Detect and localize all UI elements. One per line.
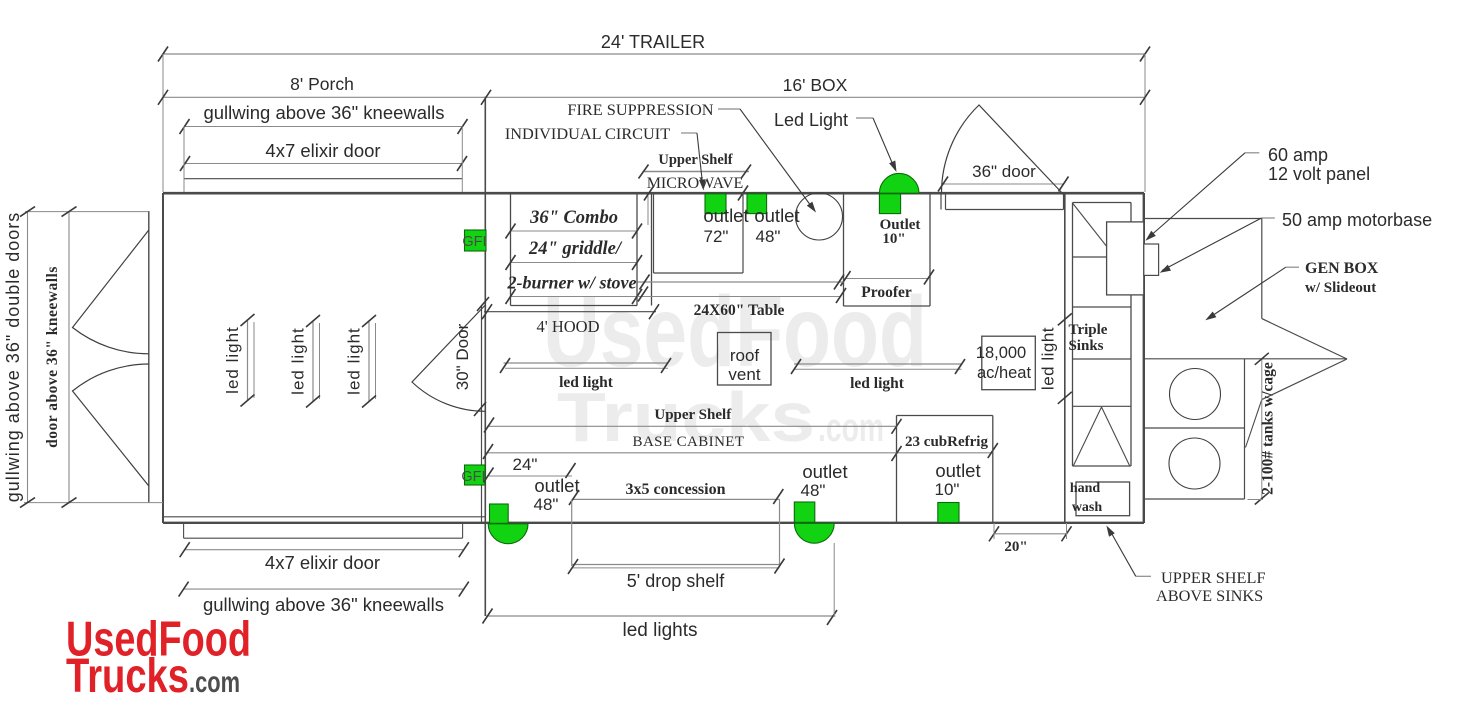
svg-text:8' Porch: 8' Porch <box>290 74 354 94</box>
svg-text:led lights: led lights <box>623 620 698 641</box>
trailer right wall <box>1143 193 1145 523</box>
outlet 72 square <box>705 194 726 214</box>
top cell diagonal <box>1073 203 1116 257</box>
svg-text:60 amp: 60 amp <box>1268 145 1328 165</box>
elixir door top rect <box>184 178 462 180</box>
svg-text:5' drop shelf: 5' drop shelf <box>627 571 725 591</box>
proofer box <box>843 193 845 306</box>
svg-text:INDIVIDUAL CIRCUIT: INDIVIDUAL CIRCUIT <box>505 124 670 143</box>
svg-text:.com: .com <box>818 406 884 450</box>
svg-text:MICROWAVE: MICROWAVE <box>647 175 744 192</box>
svg-text:24' TRAILER: 24' TRAILER <box>601 32 705 52</box>
svg-text:12 volt panel: 12 volt panel <box>1268 164 1370 184</box>
dim gullwing double doors vertical <box>27 212 29 503</box>
dim 24ft trailer <box>163 53 1145 55</box>
30in door leaf and arc <box>412 305 485 411</box>
svg-text:led light: led light <box>345 327 364 395</box>
outlet mid square+dome <box>794 502 815 522</box>
svg-text:Upper Shelf: Upper Shelf <box>658 152 732 168</box>
left ext lines <box>25 211 149 213</box>
porch inner bottom line <box>163 516 485 518</box>
svg-text:36" Combo: 36" Combo <box>529 208 618 228</box>
svg-text:wash: wash <box>1072 500 1103 515</box>
svg-text:outlet: outlet <box>534 475 579 496</box>
porch inner left wall <box>148 211 150 503</box>
23 cub refrig box <box>897 415 993 417</box>
svg-text:UPPER SHELF: UPPER SHELF <box>1161 568 1266 587</box>
svg-text:10": 10" <box>882 231 905 247</box>
36in door dim <box>943 183 1064 185</box>
svg-text:18,000: 18,000 <box>976 344 1026 362</box>
4ft hood line <box>484 311 656 313</box>
interior wall right section <box>1064 193 1066 523</box>
porch led light 3 <box>368 321 370 402</box>
svg-text:Triple: Triple <box>1069 322 1108 338</box>
svg-text:30" Door: 30" Door <box>453 323 472 390</box>
svg-text:BASE CABINET: BASE CABINET <box>633 434 745 450</box>
dim 8ft porch / 16ft box <box>163 96 1145 98</box>
porch/box divider wall <box>484 97 486 617</box>
svg-text:FIRE SUPPRESSION: FIRE SUPPRESSION <box>567 100 713 119</box>
tank circles <box>1170 369 1221 420</box>
svg-text:outlet: outlet <box>802 461 847 482</box>
svg-text:10": 10" <box>935 480 960 499</box>
motorbase nub <box>1144 244 1159 275</box>
svg-text:outlet: outlet <box>703 205 748 226</box>
drop shelf box <box>571 499 573 566</box>
upper shelf above sinks <box>1136 575 1151 577</box>
leader 60 amp <box>1245 152 1259 154</box>
svg-text:50 amp motorbase: 50 amp motorbase <box>1282 210 1432 230</box>
dim door above kneewalls vertical <box>68 212 70 503</box>
svg-text:GEN BOX: GEN BOX <box>1305 260 1379 277</box>
svg-text:outlet: outlet <box>754 205 799 226</box>
svg-text:2-burner w/ stove: 2-burner w/ stove <box>506 273 636 293</box>
svg-text:door above 36" kneewalls: door above 36" kneewalls <box>44 266 61 448</box>
microwave shelf line <box>643 171 750 173</box>
24x60 table lines <box>638 281 844 283</box>
fire suppression circle <box>796 193 843 240</box>
svg-text:Trucks: Trucks <box>66 650 189 703</box>
dim 4x7 elixir bottom <box>185 549 464 551</box>
svg-text:24" griddle/: 24" griddle/ <box>528 239 623 259</box>
dim 24in <box>487 475 572 477</box>
12 volt panel box <box>1107 222 1144 295</box>
svg-text:24": 24" <box>513 455 538 474</box>
svg-text:vent: vent <box>728 365 760 384</box>
double door upper leaf <box>73 230 149 354</box>
svg-text:led light: led light <box>223 326 242 394</box>
door threshold <box>940 193 942 210</box>
svg-text:72": 72" <box>704 227 729 246</box>
svg-text:Upper Shelf: Upper Shelf <box>654 407 732 423</box>
36in door swing <box>941 105 1063 195</box>
svg-text:48": 48" <box>756 227 781 246</box>
elixir door bottom rect <box>183 523 185 538</box>
svg-text:23 cubRefrig: 23 cubRefrig <box>905 434 988 450</box>
svg-text:roof: roof <box>730 346 760 365</box>
trailer left wall (porch end outer) <box>162 193 164 523</box>
gen box <box>1144 218 1262 220</box>
divider jamb line <box>481 305 483 523</box>
svg-text:Sinks: Sinks <box>1068 338 1103 354</box>
svg-text:.com: .com <box>189 666 240 699</box>
porch led light 2 <box>312 321 314 402</box>
svg-text:4' HOOD: 4' HOOD <box>536 317 599 336</box>
roof vent box <box>718 333 772 386</box>
led light vertical dim <box>1058 313 1072 325</box>
hand wash box <box>1076 482 1130 516</box>
svg-text:gullwing above 36" kneewalls: gullwing above 36" kneewalls <box>203 102 444 123</box>
combo dims <box>511 230 638 232</box>
svg-text:48": 48" <box>801 481 826 500</box>
svg-text:ac/heat: ac/heat <box>977 364 1032 382</box>
led light dome top <box>879 173 919 193</box>
dim 20in <box>994 533 1067 535</box>
cabinet under microwave <box>653 193 655 273</box>
svg-text:ABOVE SINKS: ABOVE SINKS <box>1156 586 1263 605</box>
ac heat box <box>982 336 1036 390</box>
leader gen box <box>1286 266 1299 268</box>
outlet 10 square <box>938 503 959 523</box>
combo cook block <box>510 193 512 306</box>
trailer bottom wall <box>163 522 1144 524</box>
triple sink column <box>1072 203 1074 467</box>
svg-text:GFI: GFI <box>461 469 485 485</box>
svg-text:Proofer: Proofer <box>861 284 912 301</box>
A-frame tongue <box>1262 319 1347 359</box>
leader 50 amp <box>1262 217 1275 219</box>
svg-text:led light: led light <box>289 327 308 395</box>
outlet 48 square <box>747 194 767 214</box>
led light dim left <box>504 362 669 364</box>
tanks dim <box>1261 359 1263 499</box>
tank top line to apex <box>1144 358 1347 360</box>
svg-text:GFI: GFI <box>462 234 486 250</box>
led lights dim bottom <box>486 615 835 617</box>
svg-text:48": 48" <box>534 495 559 514</box>
svg-text:3x5 concession: 3x5 concession <box>626 481 726 498</box>
trailer top wall <box>163 192 1144 195</box>
svg-text:hand: hand <box>1070 481 1101 496</box>
GFI outlet 2 <box>465 465 486 485</box>
svg-text:outlet: outlet <box>935 460 980 481</box>
porch led light 1 <box>247 320 249 401</box>
svg-text:led light: led light <box>850 375 905 392</box>
svg-text:2-100# tanks w/cage: 2-100# tanks w/cage <box>1260 362 1277 495</box>
svg-text:gullwing above 36" double door: gullwing above 36" double doors <box>3 212 23 503</box>
svg-text:Led Light: Led Light <box>774 110 848 130</box>
triangle cell <box>1074 407 1102 466</box>
svg-text:4x7 elixir door: 4x7 elixir door <box>265 140 380 161</box>
svg-text:w/ Slideout: w/ Slideout <box>1305 280 1376 296</box>
double door lower leaf <box>73 364 149 486</box>
svg-text:24X60" Table: 24X60" Table <box>694 302 785 319</box>
svg-text:16' BOX: 16' BOX <box>783 75 848 95</box>
dim gullwing bottom <box>184 588 464 590</box>
svg-text:20": 20" <box>1004 539 1027 555</box>
led light dim right <box>794 363 962 365</box>
outlet bottom-left square+dome <box>490 504 509 523</box>
svg-text:36" door: 36" door <box>972 162 1036 181</box>
GFI outlet 1 <box>465 230 487 251</box>
svg-text:led light: led light <box>559 374 614 391</box>
svg-text:led light: led light <box>1039 327 1058 390</box>
svg-text:4x7 elixir door: 4x7 elixir door <box>265 552 380 573</box>
tank boxes <box>1244 359 1246 499</box>
